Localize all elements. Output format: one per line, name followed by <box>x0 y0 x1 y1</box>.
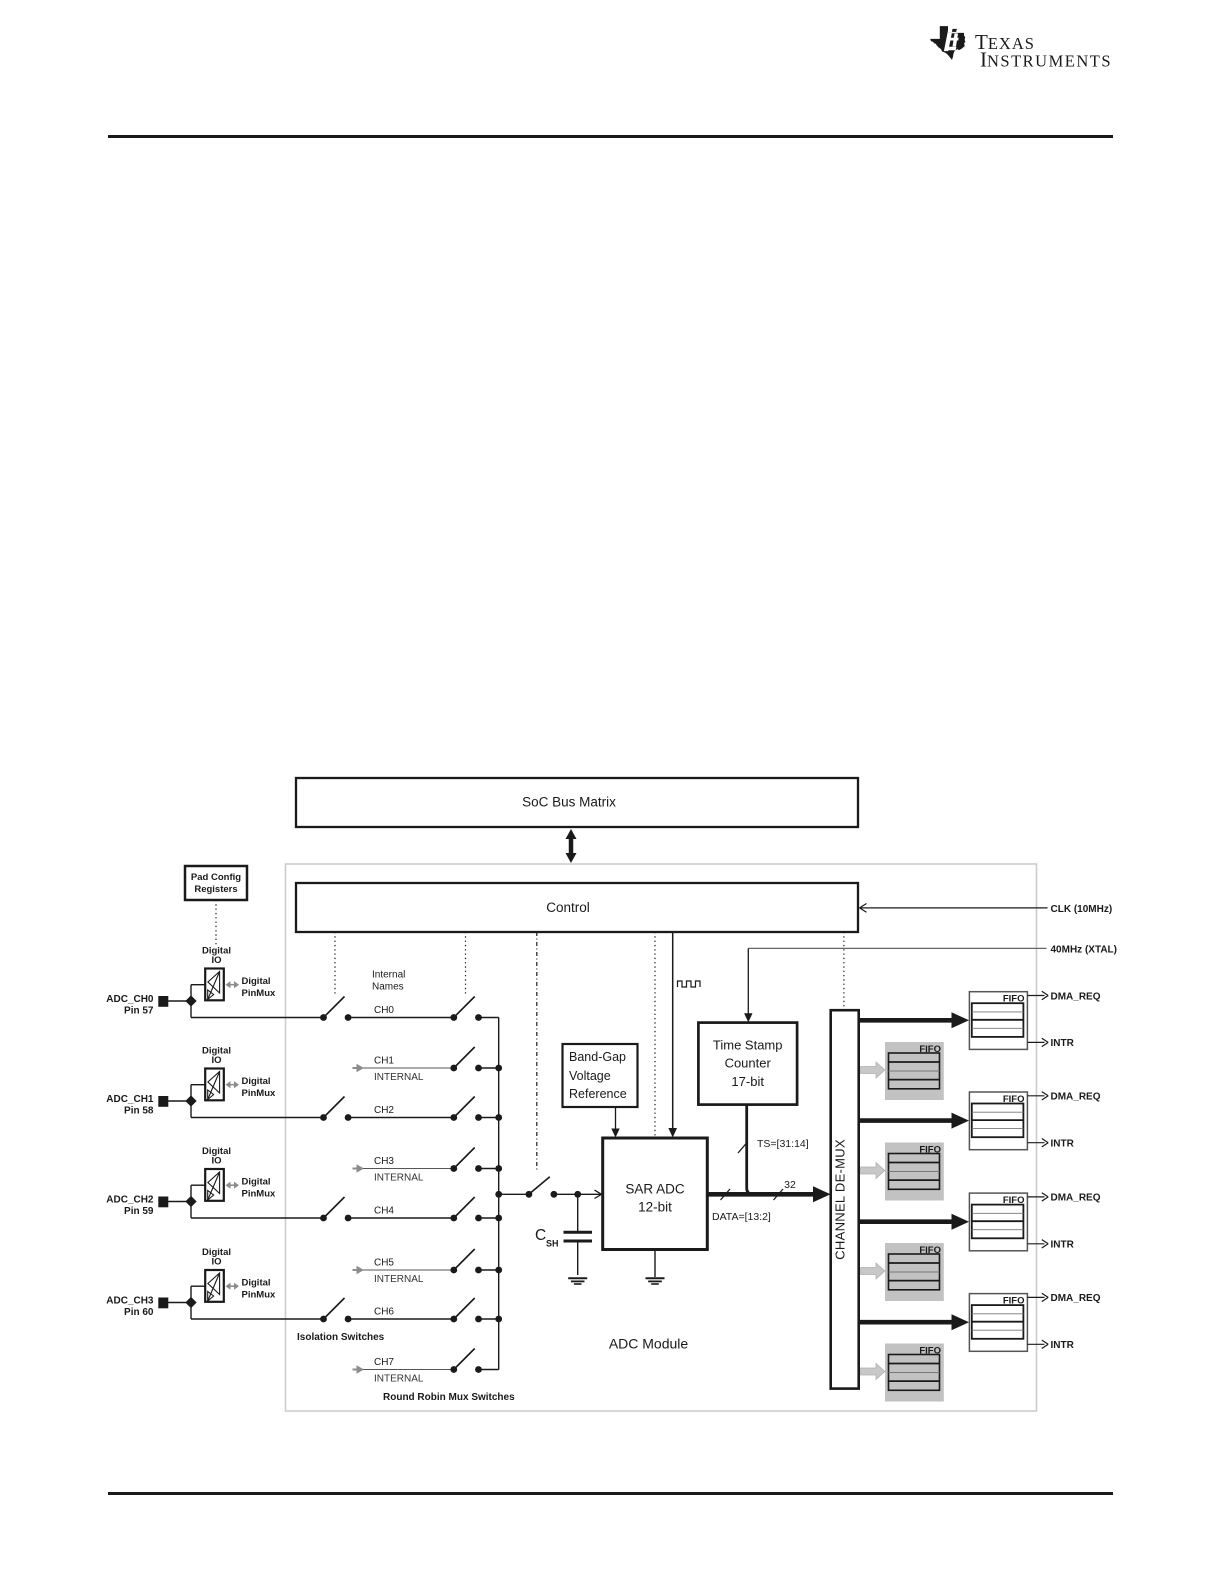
wire de-mux to FIFO 6 <box>859 1314 969 1330</box>
svg-text:Pin 59: Pin 59 <box>124 1206 154 1217</box>
svg-text:INTR: INTR <box>1051 1240 1075 1251</box>
svg-text:DMA_REQ: DMA_REQ <box>1051 1293 1101 1304</box>
svg-text:CH5: CH5 <box>374 1258 394 1269</box>
svg-text:INTERNAL: INTERNAL <box>374 1374 424 1385</box>
svg-text:SAR ADC: SAR ADC <box>625 1182 685 1197</box>
wire CH0 <box>348 1017 454 1019</box>
svg-text:IO: IO <box>211 1257 221 1268</box>
wire pad to isolation switch ADC_CH0 <box>191 1001 324 1018</box>
svg-text:PinMux: PinMux <box>242 1088 276 1099</box>
40MHz (XTAL) input <box>744 945 1117 1023</box>
svg-text:CHANNEL DE-MUX: CHANNEL DE-MUX <box>833 1139 848 1260</box>
INTR output 3 <box>1027 1340 1074 1351</box>
bus interconnect arrow <box>566 829 577 863</box>
DMA_REQ output 3 <box>1027 1293 1100 1304</box>
internal source arrow CH3 <box>353 1164 365 1172</box>
svg-text:DMA_REQ: DMA_REQ <box>1051 1193 1101 1204</box>
svg-text:PinMux: PinMux <box>242 988 276 999</box>
svg-text:ADC_CH3: ADC_CH3 <box>106 1296 154 1307</box>
wire pad to isolation switch ADC_CH1 <box>191 1101 324 1118</box>
channel bus vertical wire <box>498 1018 500 1370</box>
svg-text:12-bit: 12-bit <box>638 1200 672 1215</box>
svg-text:32: 32 <box>784 1179 796 1191</box>
sample and hold switch <box>526 1177 558 1198</box>
svg-text:CH7: CH7 <box>374 1357 394 1368</box>
wire pad to IO buffer ADC_CH3 <box>168 1286 205 1308</box>
svg-text:ADC_CH2: ADC_CH2 <box>106 1195 154 1206</box>
svg-text:Pin 60: Pin 60 <box>124 1307 154 1318</box>
wire de-mux to FIFO 2 <box>859 1113 969 1129</box>
wire band-gap to SAR ADC <box>611 1107 619 1138</box>
timestamp bus slash <box>738 1142 748 1153</box>
svg-text:Pad Config: Pad Config <box>191 872 241 883</box>
INTR output 2 <box>1027 1240 1074 1251</box>
pinmux arrow row ADC_CH2 <box>226 1182 240 1189</box>
round robin mux switch CH3 <box>450 1148 482 1172</box>
svg-text:Digital: Digital <box>242 976 271 987</box>
top rule <box>108 135 1113 138</box>
channel de-mux block <box>831 1010 859 1388</box>
svg-text:Round Robin Mux Switches: Round Robin Mux Switches <box>383 1392 515 1403</box>
svg-text:TS=[31:14]: TS=[31:14] <box>757 1138 809 1150</box>
data bus SAR to de-mux <box>707 1186 830 1202</box>
wire to channel bus <box>479 1165 503 1172</box>
wire pad to isolation switch ADC_CH3 <box>191 1303 324 1320</box>
svg-text:INTERNAL: INTERNAL <box>374 1274 424 1285</box>
svg-text:ADC_CH0: ADC_CH0 <box>106 994 154 1005</box>
INTR output 0 <box>1027 1038 1074 1049</box>
pad ADC_CH1 Pin 58 <box>106 1094 168 1117</box>
svg-text:Isolation Switches: Isolation Switches <box>297 1332 385 1343</box>
ground under SAR ADC <box>646 1251 665 1284</box>
round robin mux switch CH2 <box>450 1097 482 1121</box>
pad config registers block <box>185 866 247 900</box>
wire CH4 <box>348 1217 454 1219</box>
bottom rule <box>108 1492 1113 1495</box>
wire switch to SAR ADC input <box>554 1190 602 1198</box>
wire to channel bus <box>479 1267 503 1274</box>
svg-text:ADC_CH1: ADC_CH1 <box>106 1094 154 1105</box>
SAR ADC block <box>603 1138 708 1250</box>
svg-text:IO: IO <box>211 1055 221 1066</box>
wire internal CH7 <box>363 1369 454 1371</box>
svg-text:CH3: CH3 <box>374 1156 394 1167</box>
wire pad to IO buffer ADC_CH0 <box>168 985 205 1007</box>
wire bus to sample switch <box>495 1191 529 1198</box>
wire to channel bus <box>479 1065 503 1072</box>
svg-text:CH2: CH2 <box>374 1105 394 1116</box>
round robin mux switch CH4 <box>450 1197 482 1221</box>
FIFO 3 (gray) <box>885 1143 944 1201</box>
control line to round robin switches <box>465 932 467 994</box>
CLK (10MHz) input <box>860 904 1113 916</box>
svg-text:Time Stamp: Time Stamp <box>713 1038 783 1053</box>
svg-text:CH0: CH0 <box>374 1005 394 1016</box>
svg-text:SoC Bus Matrix: SoC Bus Matrix <box>522 795 616 810</box>
svg-text:C: C <box>535 1227 546 1244</box>
round robin mux switch CH1 <box>450 1047 482 1071</box>
svg-text:DMA_REQ: DMA_REQ <box>1051 1092 1101 1103</box>
svg-text:ADC Module: ADC Module <box>609 1336 689 1352</box>
capacitor CSH <box>564 1194 593 1275</box>
clock waveform symbol <box>678 981 701 987</box>
internal source arrow CH5 <box>353 1266 365 1274</box>
svg-text:INSTRUMENTS: INSTRUMENTS <box>980 48 1112 72</box>
timestamp bus wire <box>747 1105 760 1195</box>
pinmux label row ADC_CH1 <box>242 1076 276 1099</box>
FIFO 5 (gray) <box>885 1243 944 1301</box>
band-gap voltage reference block <box>563 1044 638 1107</box>
ADC module outer boundary <box>286 864 1037 1411</box>
gray arrow de-mux to FIFO 3 <box>861 1163 885 1179</box>
svg-text:Digital: Digital <box>242 1076 271 1087</box>
wire pad to IO buffer ADC_CH2 <box>168 1185 205 1207</box>
pinmux label row ADC_CH3 <box>242 1278 276 1301</box>
round robin mux switch CH6 <box>450 1298 482 1322</box>
control line to isolation switches <box>334 932 336 996</box>
svg-text:Digital: Digital <box>242 1177 271 1188</box>
pinmux arrow row ADC_CH1 <box>226 1081 240 1088</box>
wire to channel bus corner <box>479 1017 499 1019</box>
wire to channel bus <box>479 1316 503 1323</box>
TI logo <box>930 26 1112 71</box>
pinmux label row ADC_CH2 <box>242 1177 276 1200</box>
digital IO buffer row ADC_CH3 <box>202 1247 231 1302</box>
svg-text:INTR: INTR <box>1051 1340 1075 1351</box>
digital IO buffer row ADC_CH0 <box>202 946 231 1001</box>
svg-text:Pin 57: Pin 57 <box>124 1006 154 1017</box>
data bus slash marks <box>721 1189 784 1200</box>
control line to SAR ADC <box>654 932 656 1136</box>
svg-text:IO: IO <box>211 1156 221 1167</box>
gray arrow de-mux to FIFO 7 <box>861 1364 885 1380</box>
svg-text:Reference: Reference <box>569 1087 627 1101</box>
svg-text:17-bit: 17-bit <box>731 1074 764 1089</box>
internal source arrow CH1 <box>353 1064 365 1072</box>
wire to channel bus bottom corner <box>479 1369 499 1371</box>
svg-text:CH4: CH4 <box>374 1206 394 1217</box>
svg-text:PinMux: PinMux <box>242 1290 276 1301</box>
digital IO buffer row ADC_CH1 <box>202 1046 231 1101</box>
svg-text:Voltage: Voltage <box>569 1069 611 1083</box>
FIFO 1 (gray) <box>885 1042 944 1100</box>
svg-text:Digital: Digital <box>242 1278 271 1289</box>
round robin mux switch CH0 <box>450 997 482 1021</box>
wire pad to isolation switch ADC_CH2 <box>191 1202 324 1219</box>
wire pad to IO buffer ADC_CH1 <box>168 1085 205 1107</box>
wire internal CH3 <box>363 1168 454 1170</box>
control line to channel de-mux <box>843 932 845 1010</box>
svg-text:Counter: Counter <box>725 1056 772 1071</box>
wire internal CH1 <box>363 1067 454 1069</box>
svg-text:CH6: CH6 <box>374 1307 394 1318</box>
svg-text:SH: SH <box>546 1238 559 1248</box>
svg-text:Internal: Internal <box>372 970 405 981</box>
DMA_REQ output 2 <box>1027 1193 1100 1204</box>
FIFO 0 (white) <box>969 992 1027 1050</box>
SoC Bus Matrix box <box>296 778 858 827</box>
ADC clock line <box>668 932 677 1138</box>
internal source arrow CH7 <box>353 1365 365 1373</box>
round robin mux switch CH7 <box>450 1349 482 1373</box>
pad ADC_CH0 Pin 57 <box>106 994 168 1017</box>
pinmux arrow row ADC_CH3 <box>226 1283 240 1290</box>
svg-text:DATA=[13:2]: DATA=[13:2] <box>712 1211 771 1223</box>
svg-text:IO: IO <box>211 955 221 966</box>
svg-text:CH1: CH1 <box>374 1056 394 1067</box>
ground under CSH <box>568 1278 587 1284</box>
svg-text:PinMux: PinMux <box>242 1189 276 1200</box>
time stamp counter block <box>698 1023 797 1105</box>
control line to sample switch <box>536 932 538 1171</box>
isolation switch ADC_CH3 <box>320 1298 351 1322</box>
gray arrow de-mux to FIFO 1 <box>861 1062 885 1078</box>
svg-text:INTERNAL: INTERNAL <box>374 1072 424 1083</box>
round robin mux switch CH5 <box>450 1249 482 1273</box>
wire CH2 <box>348 1117 454 1119</box>
FIFO 2 (white) <box>969 1092 1027 1150</box>
svg-text:Control: Control <box>546 900 590 915</box>
section label internal names <box>372 970 405 993</box>
isolation switch ADC_CH2 <box>320 1197 351 1221</box>
channel label CH5 <box>374 1258 424 1286</box>
channel label CH3 <box>374 1156 424 1184</box>
DMA_REQ output 1 <box>1027 1092 1100 1103</box>
pad config control line <box>215 900 217 945</box>
wire internal CH5 <box>363 1269 454 1271</box>
svg-text:DMA_REQ: DMA_REQ <box>1051 991 1101 1002</box>
svg-text:INTERNAL: INTERNAL <box>374 1173 424 1184</box>
svg-text:Pin 58: Pin 58 <box>124 1106 154 1117</box>
pad ADC_CH2 Pin 59 <box>106 1195 168 1218</box>
wire CH6 <box>348 1318 454 1320</box>
wire to channel bus <box>479 1215 503 1222</box>
channel label CH7 <box>374 1357 424 1385</box>
svg-text:Band-Gap: Band-Gap <box>569 1050 626 1064</box>
DMA_REQ output 0 <box>1027 991 1100 1002</box>
isolation switch ADC_CH1 <box>320 1097 351 1121</box>
INTR output 1 <box>1027 1139 1074 1150</box>
pinmux label row ADC_CH0 <box>242 976 276 999</box>
capacitor label CSH <box>535 1227 559 1248</box>
svg-text:Names: Names <box>372 982 404 993</box>
FIFO 4 (white) <box>969 1193 1027 1251</box>
pad ADC_CH3 Pin 60 <box>106 1296 168 1319</box>
svg-text:INTR: INTR <box>1051 1038 1075 1049</box>
gray arrow de-mux to FIFO 5 <box>861 1263 885 1279</box>
pinmux arrow row ADC_CH0 <box>226 981 240 988</box>
svg-text:INTR: INTR <box>1051 1139 1075 1150</box>
wire to channel bus <box>479 1114 503 1121</box>
channel label CH1 <box>374 1056 424 1084</box>
FIFO 6 (white) <box>969 1294 1027 1352</box>
digital IO buffer row ADC_CH2 <box>202 1146 231 1201</box>
svg-text:40MHz (XTAL): 40MHz (XTAL) <box>1051 945 1117 956</box>
wire de-mux to FIFO 4 <box>859 1214 969 1230</box>
wire de-mux to FIFO 0 <box>859 1012 969 1028</box>
svg-text:CLK (10MHz): CLK (10MHz) <box>1051 904 1113 915</box>
svg-text:Registers: Registers <box>194 884 237 895</box>
isolation switch ADC_CH0 <box>320 997 351 1021</box>
control block <box>296 883 858 932</box>
FIFO 7 (gray) <box>885 1344 944 1402</box>
